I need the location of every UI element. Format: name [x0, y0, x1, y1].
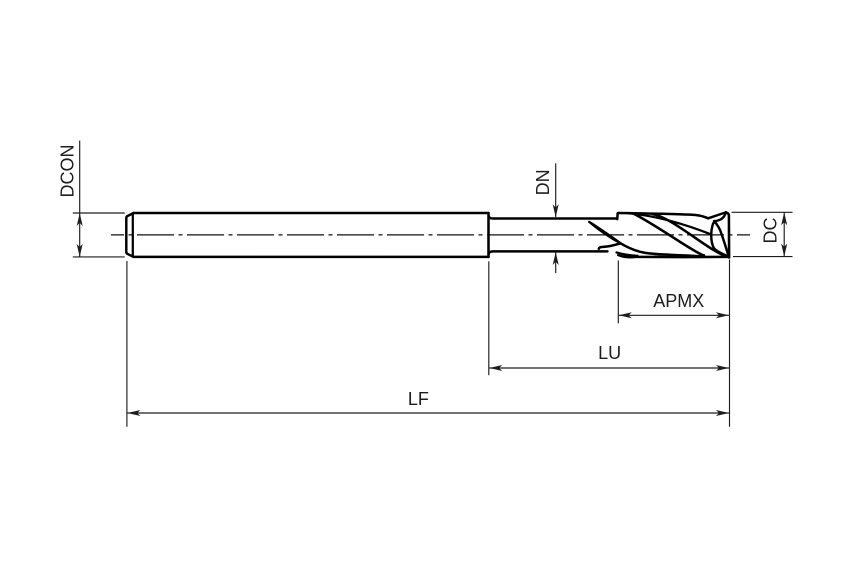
lower runout crescent [618, 255, 638, 257]
end heel arc [711, 221, 728, 256]
shank bottom edge [134, 256, 489, 259]
dimension LF line [127, 412, 729, 414]
end gash small arc [714, 212, 726, 221]
dimension DC extension bottom [733, 256, 793, 258]
flute runout crescent upper-left [589, 222, 620, 243]
corner dark wedge [725, 254, 729, 257]
APMX arrow left [619, 312, 632, 318]
dimension right shared extension [729, 260, 731, 427]
helix edge D2 [652, 214, 729, 257]
flute right end edge [726, 212, 729, 257]
APMX arrow right [716, 312, 729, 318]
LU arrow right [716, 365, 729, 371]
end center cutting edge [714, 221, 728, 256]
LF arrow left [127, 410, 140, 416]
neck bottom edge [489, 251, 608, 253]
flute body top edge [619, 213, 709, 218]
dimension LF extension left [126, 261, 128, 427]
helix edge A lower continuation [621, 243, 703, 256]
DN arrow down [553, 204, 559, 217]
svg-text:DN: DN [533, 169, 553, 195]
svg-text:DCON: DCON [58, 145, 78, 198]
far side flute line [628, 213, 711, 234]
lower tooth top line [599, 243, 621, 248]
DC arrow up [781, 212, 787, 225]
shank right end face [487, 213, 490, 257]
svg-text:DC: DC [760, 218, 780, 244]
dimension DN line upper [555, 163, 557, 217]
helix edge D1 [633, 213, 705, 255]
shank top edge [134, 212, 489, 215]
flute end top rise edge [708, 212, 726, 218]
flute start step [617, 213, 618, 219]
dimension LU line [489, 367, 729, 369]
dimension DC line [783, 212, 785, 256]
DCON arrow up [77, 213, 83, 226]
svg-text:LF: LF [408, 389, 429, 409]
dimension DC extension top [732, 211, 793, 213]
LU arrow left [489, 365, 502, 371]
flute body bottom edge [633, 256, 729, 259]
DC arrow down [781, 244, 787, 257]
dimension APMX extension left [617, 261, 619, 324]
dimension DCON extension bottom [73, 256, 125, 258]
dimension DCON line [79, 141, 81, 257]
dimension DCON extension top [73, 212, 125, 214]
lower flank silhouette [617, 252, 638, 255]
centerline [111, 234, 750, 236]
DN arrow up [553, 252, 559, 265]
shank left end cap [126, 213, 133, 257]
LF arrow right [716, 410, 729, 416]
dimension APMX line [619, 314, 729, 316]
dimension DN line lower [555, 252, 557, 273]
shank left end inner edge [132, 213, 134, 256]
neck top edge [489, 216, 618, 218]
svg-text:APMX: APMX [653, 291, 704, 311]
DCON arrow down [77, 244, 83, 257]
dimension LU extension left [488, 261, 490, 375]
svg-text:LU: LU [598, 343, 621, 363]
